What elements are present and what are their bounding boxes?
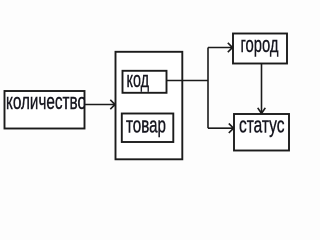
- wire количество to outer box: [86, 100, 116, 109]
- box товар: [122, 113, 174, 143]
- vertical junction wire: [207, 48, 209, 129]
- box количество: [5, 89, 87, 129]
- outer group box: [116, 52, 183, 160]
- box город: [233, 32, 287, 64]
- svg-text:статус: статус: [239, 113, 285, 138]
- svg-text:код: код: [127, 67, 150, 92]
- wire to статус with arrow: [208, 124, 234, 133]
- wire to город with arrow: [208, 43, 233, 52]
- box код: [123, 67, 167, 93]
- svg-text:количество: количество: [6, 89, 86, 114]
- wire код to junction: [167, 80, 209, 82]
- box статус: [234, 113, 289, 151]
- svg-text:город: город: [241, 32, 279, 57]
- svg-text:товар: товар: [126, 113, 166, 138]
- wire город to статус with arrow: [258, 64, 266, 114]
